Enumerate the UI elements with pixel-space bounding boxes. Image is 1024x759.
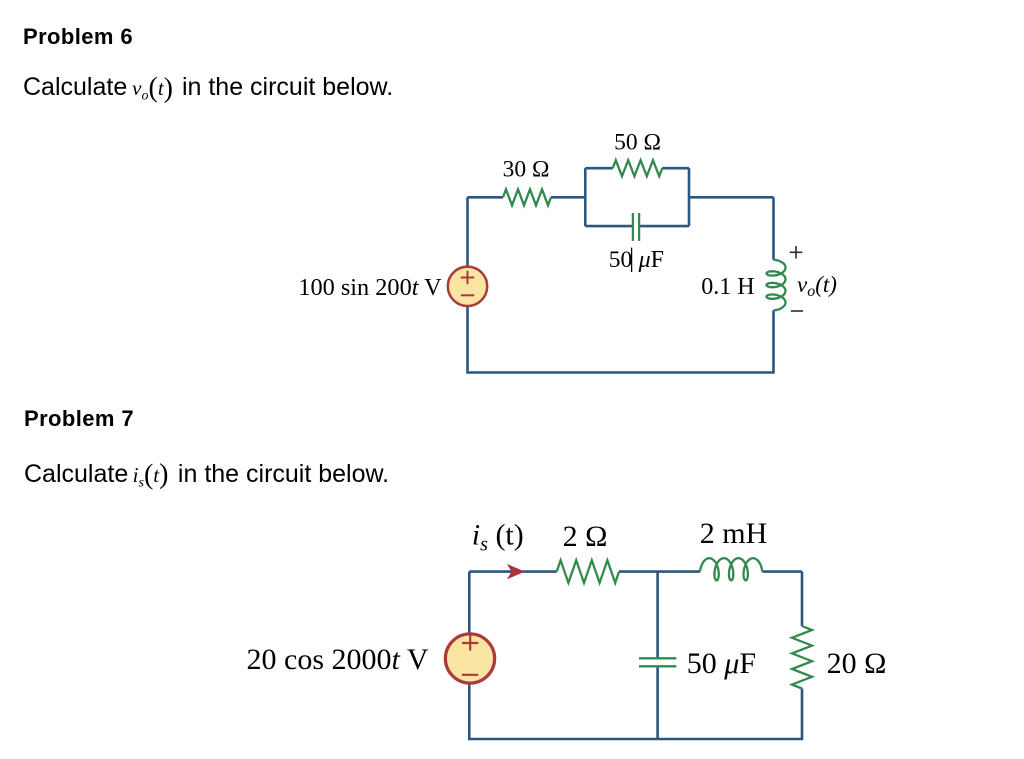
svg-text:0.1 H: 0.1 H xyxy=(701,274,754,300)
svg-text:vo(t): vo(t) xyxy=(797,272,837,300)
svg-text:μF: μF xyxy=(638,247,664,273)
svg-text:100 sin 200t V: 100 sin 200t V xyxy=(298,274,442,301)
svg-text:50: 50 xyxy=(609,247,633,273)
svg-text:20 cos 2000t V: 20 cos 2000t V xyxy=(247,643,429,676)
svg-text:2 mH: 2 mH xyxy=(700,517,768,550)
svg-text:50 Ω: 50 Ω xyxy=(614,130,661,156)
svg-text:2 Ω: 2 Ω xyxy=(563,520,608,553)
svg-text:20 Ω: 20 Ω xyxy=(827,647,887,680)
svg-text:50 μF: 50 μF xyxy=(687,647,756,680)
svg-text:is (t): is (t) xyxy=(472,519,524,556)
svg-text:30 Ω: 30 Ω xyxy=(503,157,550,183)
